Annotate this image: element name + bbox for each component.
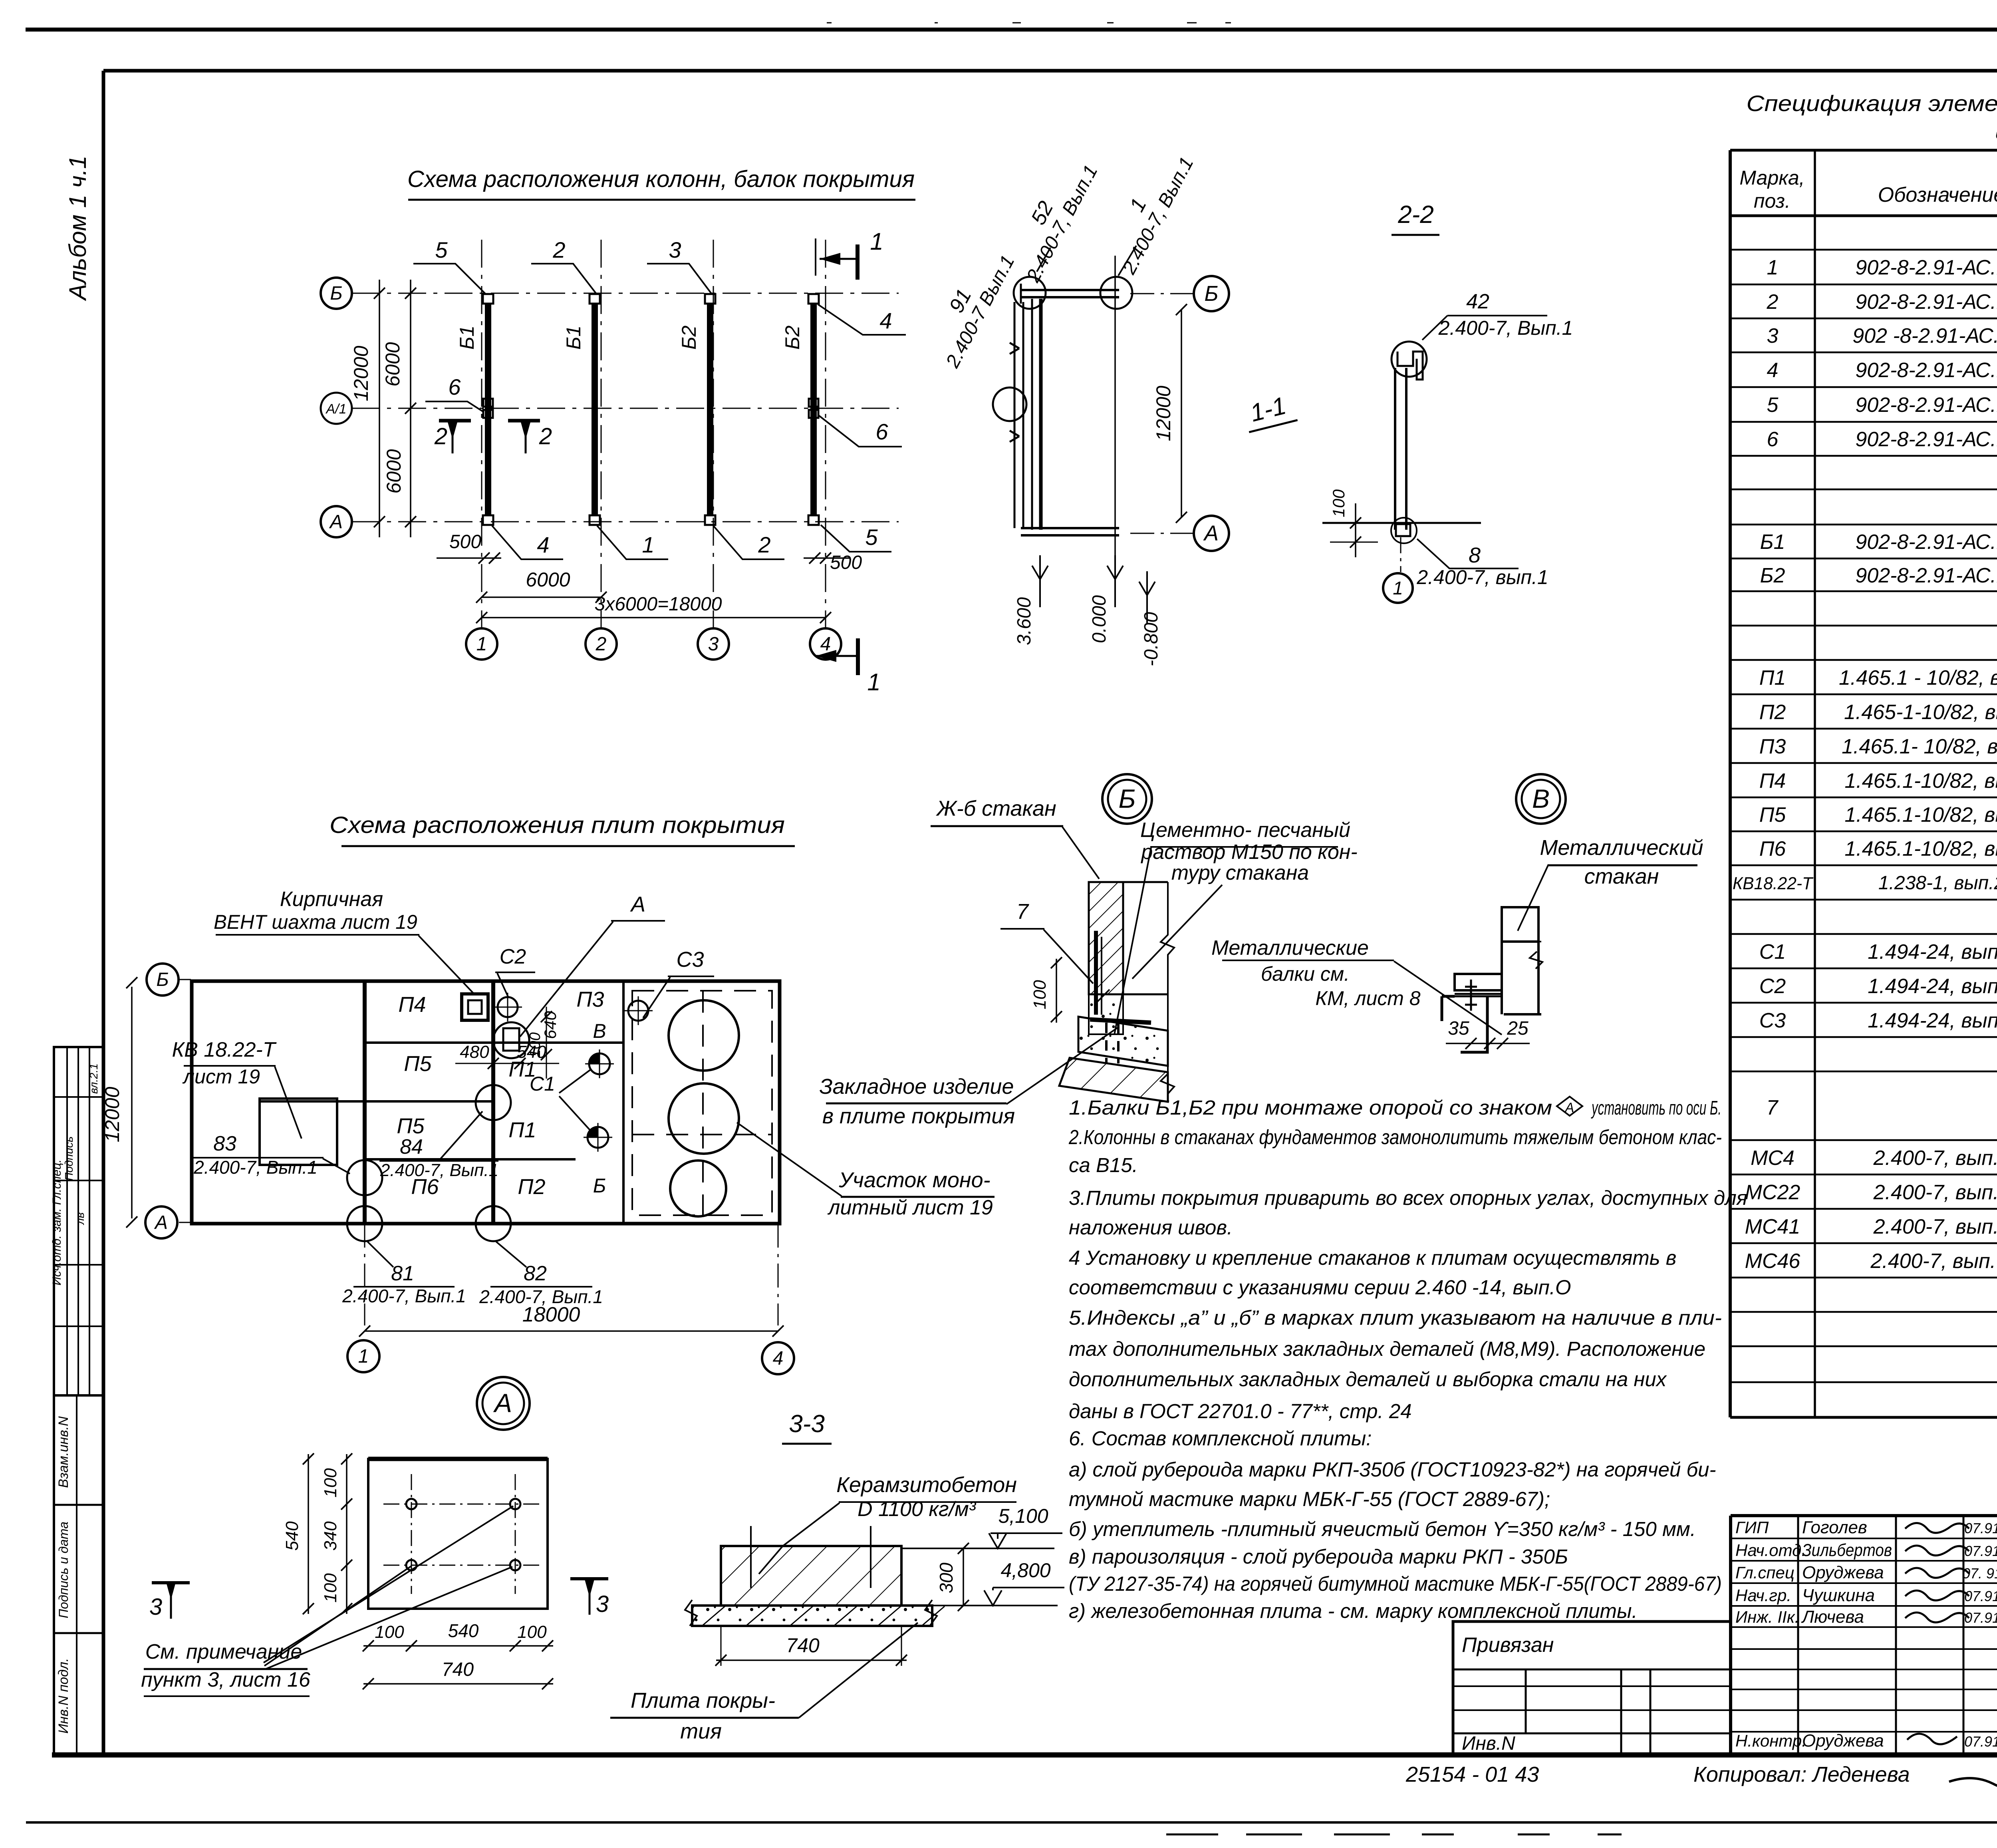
svg-text:Б2: Б2 <box>678 326 700 350</box>
svg-text:2: 2 <box>596 634 607 655</box>
svg-text:Б1: Б1 <box>562 326 585 350</box>
svg-text:А: А <box>154 1212 168 1233</box>
svg-text:А: А <box>1564 1100 1574 1115</box>
bottom leaders 81 82 <box>367 1242 393 1267</box>
middle joint squares on axis A/1 for beams 1,4 <box>483 399 493 407</box>
svg-text:Металлический: Металлический <box>1540 836 1703 860</box>
leader 2 top <box>531 264 596 293</box>
svg-text:пункт 3, лист 16: пункт 3, лист 16 <box>141 1668 310 1691</box>
svg-text:07.91: 07.91 <box>1964 1733 1997 1750</box>
svg-text:902-8-2.91-АС.И.4: 902-8-2.91-АС.И.4 <box>1855 359 1997 382</box>
svg-text:6000: 6000 <box>381 342 404 386</box>
anchor cross <box>1470 980 1472 1011</box>
svg-text:б) утеплитель -плитный ячеист: б) утеплитель -плитный ячеистый бетон ϒ=… <box>1069 1518 1696 1540</box>
svg-text:тия: тия <box>680 1719 722 1743</box>
svg-text:С3: С3 <box>1759 1009 1786 1032</box>
svg-text:902-8-2.91-АС.И.2: 902-8-2.91-АС.И.2 <box>1855 564 1997 587</box>
plan1 bottom dim 6000 <box>482 596 601 598</box>
svg-text:2.400-7, вып.1: 2.400-7, вып.1 <box>1416 566 1548 588</box>
svg-text:Альбом 1 ч.1: Альбом 1 ч.1 <box>64 155 91 301</box>
svg-text:П2: П2 <box>518 1175 545 1199</box>
plate centerlines <box>411 1474 412 1594</box>
L bracket <box>1441 996 1443 1021</box>
cup C1 big circle with square <box>493 1022 529 1058</box>
section 1-1 dim 12000 <box>1181 310 1182 517</box>
svg-text:4: 4 <box>879 308 892 333</box>
svg-text:902-8-2.91-АС.И.5: 902-8-2.91-АС.И.5 <box>1855 393 1997 417</box>
svg-text:в плите покрытия: в плите покрытия <box>822 1104 1015 1128</box>
svg-text:500: 500 <box>830 552 862 573</box>
svg-text:Плита покры-: Плита покры- <box>631 1689 775 1713</box>
slab diagonal hatch hints <box>703 1606 725 1625</box>
title block signature grid <box>1731 1514 1997 1517</box>
svg-text:100: 100 <box>517 1622 547 1642</box>
svg-text:литный лист 19: литный лист 19 <box>827 1196 993 1219</box>
plan1 vertical dimension line 6000+6000 <box>410 280 411 537</box>
svg-text:Б2: Б2 <box>1760 564 1785 587</box>
left margin lower stamp block (Взам.инв.N / Подпись и дата / Инв.N подл.) <box>54 1395 103 1755</box>
svg-text:1.494-24, вып.2: 1.494-24, вып.2 <box>1868 1009 1997 1032</box>
svg-text:2.Колонны в стаканах фундаме: 2.Колонны в стаканах фундаментов замонол… <box>1068 1126 1722 1149</box>
svg-text:540: 540 <box>282 1521 302 1551</box>
metal cup body <box>1502 907 1538 942</box>
svg-text:6000: 6000 <box>383 449 405 493</box>
svg-text:3: 3 <box>596 1591 609 1617</box>
plan2 bottom axis circles <box>364 1224 365 1325</box>
svg-text:А: А <box>630 892 645 916</box>
svg-text:П1: П1 <box>1759 666 1786 690</box>
svg-text:18000: 18000 <box>522 1303 580 1326</box>
svg-text:даны в ГОСТ 22701.0 - 77**,: даны в ГОСТ 22701.0 - 77**, стр. 24 <box>1069 1400 1412 1423</box>
svg-text:КВ18.22-Т: КВ18.22-Т <box>1733 874 1814 893</box>
svg-text:А: А <box>493 1388 512 1418</box>
svg-text:3х6000=18000: 3х6000=18000 <box>595 594 722 615</box>
svg-text:Взам.инв.N: Взам.инв.N <box>56 1416 71 1488</box>
svg-text:35: 35 <box>1448 1018 1469 1039</box>
svg-text:Схема расположения плит п: Схема расположения плит покрытия <box>330 812 785 838</box>
sheet bottom outer line <box>26 1821 1997 1824</box>
svg-text:1: 1 <box>358 1346 369 1367</box>
svg-text:поз.: поз. <box>1754 190 1791 212</box>
section 2-2 axis circle 1 <box>1400 537 1401 572</box>
svg-text:Закладное изделие: Закладное изделие <box>820 1075 1014 1099</box>
svg-text:П3: П3 <box>1759 735 1786 758</box>
axis circle A/1 <box>321 393 352 424</box>
dim 100 detail B <box>1056 959 1057 1023</box>
sloped floor slab <box>1078 1017 1168 1066</box>
svg-text:1.494-24, вып.1: 1.494-24, вып.1 <box>1868 940 1997 964</box>
lower foundation hatch <box>1059 1058 1168 1102</box>
svg-text:480: 480 <box>460 1042 489 1062</box>
svg-text:В: В <box>593 1020 606 1042</box>
diamond znak A in note 1 <box>1557 1097 1582 1116</box>
section 1-1 top beam <box>1021 289 1119 291</box>
section 1-1 column <box>1031 299 1033 530</box>
svg-text:42: 42 <box>1466 290 1489 313</box>
svg-text:См. примечание: См. примечание <box>145 1640 302 1663</box>
svg-text:туру стакана: туру стакана <box>1171 861 1309 884</box>
svg-text:вл.2.1: вл.2.1 <box>87 1063 100 1094</box>
svg-text:83: 83 <box>213 1132 236 1155</box>
svg-text:С2: С2 <box>1759 975 1786 998</box>
svg-text:2.400-7, вып. 2: 2.400-7, вып. 2 <box>1870 1250 1997 1273</box>
svg-text:2: 2 <box>758 532 770 557</box>
svg-text:1.238-1, вып.2: 1.238-1, вып.2 <box>1878 872 1997 894</box>
svg-text:Металлические: Металлические <box>1211 936 1369 960</box>
svg-text:5,100: 5,100 <box>998 1505 1048 1527</box>
svg-text:ГИП: ГИП <box>1735 1518 1769 1537</box>
section marks 2 on axis A/1 <box>439 419 471 423</box>
svg-text:500: 500 <box>449 531 481 552</box>
svg-text:Инв.N: Инв.N <box>1462 1733 1515 1754</box>
svg-text:балки см.: балки см. <box>1261 963 1350 985</box>
svg-text:2.400-7, Вып.1: 2.400-7, Вып.1 <box>342 1286 466 1306</box>
svg-text:А: А <box>1203 521 1219 545</box>
svg-text:5.Индексы „а” и „б” в марка: 5.Индексы „а” и „б” в марках плит указыв… <box>1069 1306 1722 1329</box>
svg-text:С3: С3 <box>676 948 704 972</box>
svg-text:100: 100 <box>375 1622 404 1642</box>
svg-text:лист 19: лист 19 <box>182 1065 260 1088</box>
svg-text:-0.800: -0.800 <box>1141 612 1162 666</box>
monolith circles <box>669 1000 739 1071</box>
svg-text:4: 4 <box>773 1348 784 1369</box>
svg-text:2: 2 <box>552 237 565 262</box>
svg-text:С2: С2 <box>500 945 526 968</box>
svg-text:МС22: МС22 <box>1745 1181 1800 1204</box>
rotated leader texts 52 / 1 / 91 <box>1002 151 1102 286</box>
section 1-1 connection circles <box>1014 277 1046 309</box>
svg-text:3: 3 <box>669 237 681 262</box>
svg-text:П5: П5 <box>397 1114 425 1138</box>
svg-text:902-8-2.91-АС.И.6: 902-8-2.91-АС.И.6 <box>1855 428 1997 451</box>
tick x <box>1098 990 1110 1001</box>
svg-text:12000: 12000 <box>1152 385 1175 441</box>
section 2-2 column <box>1394 368 1396 530</box>
svg-text:П2: П2 <box>1759 701 1786 724</box>
section mark 1-1 bottom <box>856 638 860 675</box>
axis circle A <box>321 506 352 537</box>
svg-text:84: 84 <box>400 1135 423 1158</box>
svg-text:П4: П4 <box>398 993 426 1017</box>
svg-text:1: 1 <box>1767 256 1779 279</box>
svg-text:4,800: 4,800 <box>1000 1559 1050 1582</box>
svg-text:Б: Б <box>1204 282 1218 306</box>
section 1-1 bottom beam <box>1021 527 1119 529</box>
svg-text:1.Балки Б1,Б2 при монтаже: 1.Балки Б1,Б2 при монтаже опорой со знак… <box>1069 1096 1552 1119</box>
svg-text:Гоголев: Гоголев <box>1802 1518 1867 1537</box>
plan1 dim 500 left <box>437 557 501 559</box>
svg-text:12000: 12000 <box>350 346 372 401</box>
svg-text:Цементно- песчаный: Цементно- песчаный <box>1140 819 1350 842</box>
break z <box>1530 952 1542 969</box>
svg-text:Керамзитобетон: Керамзитобетон <box>836 1473 1017 1497</box>
svg-text:100: 100 <box>1329 489 1348 517</box>
leader 8 <box>1417 539 1519 568</box>
svg-text:2: 2 <box>1767 290 1779 314</box>
svg-text:Спецификация элементов к: Спецификация элементов к схемам располож… <box>1747 91 1997 116</box>
svg-text:07. 91: 07. 91 <box>1962 1565 1997 1582</box>
svg-text:340: 340 <box>321 1521 340 1551</box>
svg-text:1.465-1-10/82, вып.1: 1.465-1-10/82, вып.1 <box>1844 701 1997 724</box>
plan1 dim 500 right <box>804 557 851 559</box>
stakan walls hatched <box>1089 882 1123 994</box>
right monolith zone dashed <box>632 991 772 1215</box>
svg-text:3: 3 <box>149 1594 162 1620</box>
svg-text:Инж. IIк.: Инж. IIк. <box>1735 1608 1799 1626</box>
svg-text:1: 1 <box>870 228 883 255</box>
svg-text:МС41: МС41 <box>1745 1215 1800 1238</box>
section mark 1-1 top <box>815 238 816 276</box>
svg-text:3: 3 <box>708 634 719 655</box>
crossing leaders to holes <box>264 1506 513 1663</box>
svg-text:6. Состав комплексной плит: 6. Состав комплексной плиты: <box>1069 1427 1372 1450</box>
privyazan block <box>1453 1621 1731 1755</box>
svg-text:902-8-2.91-АС.И.3: 902-8-2.91-АС.И.3 <box>1855 290 1997 314</box>
leader 6 right <box>819 415 902 447</box>
svg-text:6000: 6000 <box>526 568 570 591</box>
svg-text:1: 1 <box>476 634 487 655</box>
svg-text:А/1: А/1 <box>325 401 346 417</box>
svg-text:Исч.отд. зам. Гл.спец.: Исч.отд. зам. Гл.спец. <box>50 1159 64 1285</box>
svg-text:902-8-2.91-АС.И.3: 902-8-2.91-АС.И.3 <box>1855 256 1997 279</box>
svg-text:Оруджева: Оруджева <box>1802 1731 1884 1751</box>
section 2-2 top bracket in circle <box>1392 342 1427 377</box>
svg-text:82: 82 <box>524 1262 547 1285</box>
svg-text:1.465.1-10/82, вып.1: 1.465.1-10/82, вып.1 <box>1844 803 1997 827</box>
svg-text:07.91: 07.91 <box>1964 1588 1997 1604</box>
bottom leaders 4 1 2 5 <box>492 526 563 559</box>
svg-text:740: 740 <box>786 1634 820 1657</box>
beam piece left <box>1455 974 1502 990</box>
svg-text:Схема расположения колонн,: Схема расположения колонн, балок покрыти… <box>407 166 915 192</box>
svg-text:1: 1 <box>642 532 654 557</box>
svg-text:8: 8 <box>1469 543 1481 567</box>
svg-text:7: 7 <box>1016 900 1029 924</box>
svg-text:12000: 12000 <box>101 1087 123 1142</box>
svg-text:Инв.N подл.: Инв.N подл. <box>56 1658 71 1733</box>
plan1 vertical dimension line 12000 <box>379 280 380 537</box>
svg-text:1.465.1-10/82, вып.1: 1.465.1-10/82, вып.1 <box>1844 769 1997 793</box>
plate holes <box>406 1499 417 1509</box>
svg-text:П6: П6 <box>1759 837 1786 860</box>
leader 5 top <box>413 264 486 294</box>
svg-text:Оруджева: Оруджева <box>1802 1563 1884 1582</box>
small cup circles C2 C3 <box>498 997 518 1017</box>
plan1 grid axes horizontal <box>352 293 899 294</box>
svg-text:Гл.спец: Гл.спец <box>1735 1563 1795 1582</box>
svg-text:300: 300 <box>936 1562 957 1593</box>
svg-text:6: 6 <box>875 419 888 444</box>
svg-text:Подпись и дата: Подпись и дата <box>56 1522 71 1618</box>
section 2-2 base square and circle <box>1396 524 1410 536</box>
plan1 bottom dim 18000 <box>482 617 826 618</box>
svg-text:С1: С1 <box>1759 940 1786 964</box>
svg-text:Подпись: Подпись <box>63 1136 75 1180</box>
svg-text:6: 6 <box>1767 428 1779 451</box>
svg-text:2.400-7, вып.2: 2.400-7, вып.2 <box>1873 1147 1997 1170</box>
svg-text:Ж-б стакан: Ж-б стакан <box>935 797 1056 821</box>
drawing frame <box>103 69 1997 73</box>
svg-text:В: В <box>1532 784 1550 813</box>
svg-text:Участок моно-: Участок моно- <box>838 1168 990 1192</box>
vent shaft square <box>462 994 488 1020</box>
svg-text:1.465.1 - 10/82, вып.1: 1.465.1 - 10/82, вып.1 <box>1839 666 1997 690</box>
section 1-1 wall panels <box>1014 302 1016 528</box>
svg-text:Зильбертов: Зильбертов <box>1802 1540 1892 1560</box>
slab break ends <box>685 1600 697 1626</box>
svg-text:6: 6 <box>448 374 461 399</box>
svg-text:Н.контр.: Н.контр. <box>1735 1731 1806 1750</box>
svg-text:100: 100 <box>321 1573 340 1603</box>
svg-text:в) пароизоляция - слой руберо: в) пароизоляция - слой рубероида марки Р… <box>1069 1545 1568 1568</box>
svg-text:100: 100 <box>1030 980 1050 1009</box>
axis circles plan2 <box>147 964 179 996</box>
svg-text:902 -8-2.91-АС.И.4: 902 -8-2.91-АС.И.4 <box>1852 324 1997 348</box>
svg-text:А: А <box>329 511 343 533</box>
dim 100 <box>1355 503 1356 557</box>
svg-text:КВ 18.22-Т: КВ 18.22-Т <box>172 1038 277 1061</box>
sheet top edge line <box>26 28 1997 32</box>
svg-text:25154 - 01 43: 25154 - 01 43 <box>1405 1763 1539 1786</box>
svg-text:С1: С1 <box>530 1073 555 1095</box>
specification table grid <box>1730 149 1997 152</box>
svg-text:2.400-7, Вып.1: 2.400-7, Вып.1 <box>1438 317 1573 339</box>
svg-text:Б1: Б1 <box>1760 531 1785 554</box>
section 1-1 grid circles <box>1194 276 1229 311</box>
svg-text:2: 2 <box>434 423 447 449</box>
svg-text:Лючева: Лючева <box>1801 1607 1864 1627</box>
detail V circle <box>1516 774 1566 824</box>
P1 marker circles <box>589 1053 610 1074</box>
svg-text:Б2: Б2 <box>781 326 804 350</box>
embedded plate vertical <box>1094 931 1098 1015</box>
svg-text:2-2: 2-2 <box>1398 201 1434 229</box>
svg-text:5: 5 <box>1767 393 1779 417</box>
svg-text:Кирпичная: Кирпичная <box>280 888 383 911</box>
svg-text:са В15.: са В15. <box>1069 1154 1138 1176</box>
plan2 left dim 12000 <box>131 987 133 1218</box>
svg-text:4: 4 <box>537 532 549 557</box>
svg-text:2.400-7, Вып.1: 2.400-7, Вып.1 <box>193 1157 318 1178</box>
section 1-1 axis vertical <box>1114 256 1116 571</box>
svg-text:раствор М150 по кон-: раствор М150 по кон- <box>1140 841 1357 864</box>
svg-text:25: 25 <box>1507 1018 1529 1039</box>
dim 740 <box>716 1659 907 1661</box>
vertical dashed anchors <box>750 1526 752 1588</box>
svg-text:г) железобетонная плита - см.: г) железобетонная плита - см. марку комп… <box>1069 1600 1638 1622</box>
svg-text:Б: Б <box>330 283 342 304</box>
embedded horizontal plate <box>1090 1019 1151 1023</box>
KV shaft rectangle <box>260 1099 337 1165</box>
shelf line <box>1089 994 1168 996</box>
plan2 outline <box>192 981 780 1224</box>
svg-text:а) слой рубероида марки РКП: а) слой рубероида марки РКП-350б (ГОСТ10… <box>1069 1458 1716 1481</box>
svg-text:Нач.отд.: Нач.отд. <box>1735 1541 1806 1560</box>
svg-text:4 Установку и крепление ст: 4 Установку и крепление стаканов к плита… <box>1069 1246 1676 1269</box>
svg-text:Привязан: Привязан <box>1462 1633 1554 1657</box>
svg-text:и плит покрытия: и плит покрытия <box>1995 119 1997 144</box>
svg-text:П5: П5 <box>404 1052 432 1076</box>
label 1-1 <box>1241 390 1297 432</box>
svg-text:1: 1 <box>1393 578 1403 598</box>
svg-text:3.Плиты покрытия приварить: 3.Плиты покрытия приварить во всех опорн… <box>1069 1186 1747 1209</box>
leader 4 right <box>818 304 906 335</box>
svg-text:1.494-24, вып.1: 1.494-24, вып.1 <box>1868 975 1997 998</box>
svg-text:соответствии с указаниями: соответствии с указаниями серии 2.460 -1… <box>1069 1276 1571 1299</box>
svg-text:540: 540 <box>448 1620 479 1641</box>
dim 300 <box>963 1548 964 1606</box>
beams B1 B2 thick bars with column squares <box>485 303 491 516</box>
detail A dims left <box>346 1454 347 1614</box>
small fold dashes top <box>827 22 832 24</box>
svg-text:П5: П5 <box>1759 803 1787 827</box>
svg-text:установить по оси Б.: установить по оси Б. <box>1591 1097 1721 1119</box>
svg-text:Б1: Б1 <box>456 326 478 350</box>
svg-text:1.465.1- 10/82, вып.1: 1.465.1- 10/82, вып.1 <box>1842 735 1997 758</box>
svg-text:П4: П4 <box>1759 769 1786 793</box>
bottom axis circles 1-4 <box>466 628 497 660</box>
svg-text:МС4: МС4 <box>1751 1147 1795 1170</box>
section 3 marks <box>152 1581 190 1584</box>
svg-text:П1: П1 <box>508 1118 536 1142</box>
svg-text:наложения швов.: наложения швов. <box>1069 1216 1233 1239</box>
plan1 grid axes vertical <box>481 240 482 629</box>
lower body with dots <box>1089 994 1123 1034</box>
svg-text:П3: П3 <box>576 988 604 1011</box>
plan2 horizontal separators <box>365 1041 623 1044</box>
svg-text:3-3: 3-3 <box>789 1410 825 1438</box>
svg-text:3.600: 3.600 <box>1014 597 1035 645</box>
svg-text:4: 4 <box>1767 359 1779 382</box>
svg-text:лв: лв <box>74 1212 86 1225</box>
svg-text:640: 640 <box>541 1011 560 1039</box>
detail A plate <box>368 1459 548 1609</box>
detail B circle <box>1102 774 1152 824</box>
svg-text:Нач.гр.: Нач.гр. <box>1735 1586 1791 1605</box>
svg-text:КМ, лист 8: КМ, лист 8 <box>1315 987 1420 1009</box>
svg-text:100: 100 <box>321 1468 340 1498</box>
joint circles on plan2 <box>347 1160 382 1195</box>
svg-text:тумной мастике марки МБК: тумной мастике марки МБК-Г-55 (ГОСТ 2889… <box>1069 1488 1550 1510</box>
detail A circle <box>477 1377 530 1430</box>
svg-text:4: 4 <box>820 634 831 655</box>
svg-text:5: 5 <box>865 525 878 550</box>
svg-text:Б: Б <box>1119 784 1136 813</box>
svg-text:2: 2 <box>539 423 552 449</box>
svg-text:Б: Б <box>156 969 169 990</box>
svg-text:D 1100 кг/м³: D 1100 кг/м³ <box>858 1498 977 1521</box>
axis circle B <box>321 278 352 309</box>
svg-text:Марка,: Марка, <box>1739 167 1804 189</box>
svg-text:Копировал: Леденева: Копировал: Леденева <box>1693 1763 1910 1786</box>
left margin upper stamp block <box>54 1047 103 1395</box>
elevation marks 3.600 / 0.000 / -0.800 <box>1039 555 1041 579</box>
svg-text:1: 1 <box>867 669 880 695</box>
section 2-2 ground line <box>1322 522 1481 524</box>
leader 3 top <box>647 264 712 294</box>
svg-text:Б: Б <box>593 1174 606 1197</box>
slab band with concrete dots <box>692 1606 932 1626</box>
svg-text:81: 81 <box>391 1262 414 1285</box>
svg-text:902-8-2.91-АС.И.2: 902-8-2.91-АС.И.2 <box>1855 531 1997 554</box>
svg-text:2.400-7, Вып.1: 2.400-7, Вып.1 <box>380 1160 498 1180</box>
plan2 internal thick verticals <box>363 981 367 1224</box>
svg-text:Чушкина: Чушкина <box>1802 1586 1875 1605</box>
hatched keramzit block <box>721 1546 901 1606</box>
svg-text:стакан: стакан <box>1584 864 1659 888</box>
svg-text:5: 5 <box>435 237 448 262</box>
svg-text:0.000: 0.000 <box>1089 595 1110 643</box>
